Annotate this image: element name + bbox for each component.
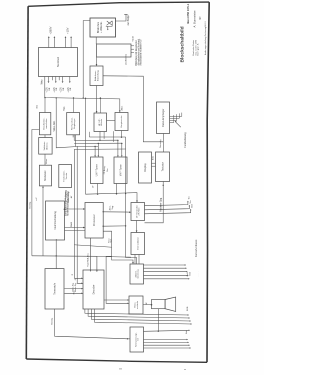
- svg-text:a.u.: a.u.: [37, 104, 39, 108]
- prozessor bottom wires to video endstufe: [106, 256, 129, 303]
- power supply box Netzteil: [39, 48, 78, 77]
- box ZF-Verstaerker: [131, 203, 145, 221]
- svg-text:Video-Abtr.: Video-Abtr.: [53, 120, 56, 131]
- svg-text:Weiche: Weiche: [101, 118, 103, 126]
- svg-text:A. Burmeister: A. Burmeister: [192, 10, 196, 27]
- demodulator to ablenk verticals: [134, 255, 136, 265]
- terminal bar: [124, 14, 127, 16]
- deflection stub 3: [131, 52, 134, 54]
- wire bus drop to VHF tuner: [117, 140, 119, 157]
- netzteil bottom lead 1: [48, 77, 50, 82]
- wire bus drop to VHF tuner: [121, 144, 123, 158]
- box Tastatur: [156, 152, 170, 182]
- svg-text:FBAS: FBAS: [70, 221, 73, 227]
- svg-text:Tastatur: Tastatur: [160, 162, 164, 171]
- svg-text:Display: Display: [143, 163, 147, 172]
- wire from below into modulator: [42, 186, 44, 256]
- svg-text:Blockschaltbild: Blockschaltbild: [179, 26, 185, 62]
- svg-text:Best 856 105-1: Best 856 105-1: [186, 3, 190, 23]
- trennstufe bottom wire to netzspannungsteil: [55, 309, 130, 339]
- svg-text:Spg.: Spg.: [112, 205, 114, 210]
- weiche bottom to bus: [99, 132, 101, 141]
- box Ablenksteuerung: [130, 264, 144, 284]
- bus left verticals: [75, 135, 77, 147]
- deflection output line 5: [144, 278, 190, 280]
- netzteil bottom lead 4: [58, 77, 60, 81]
- box Modulator: [39, 165, 51, 186]
- svg-text:+ Ablenk.: + Ablenk.: [99, 21, 103, 33]
- weiche to hauptsender connector: [107, 120, 116, 122]
- remote hook wire 4: [170, 115, 174, 123]
- svg-text:Netz: Netz: [40, 79, 43, 85]
- prozessor to decoder wire: [89, 238, 91, 272]
- svg-text:UHF-Tuner: UHF-Tuner: [96, 164, 99, 176]
- svg-text:Abstimmspannung-Ausg.: Abstimmspannung-Ausg.: [67, 191, 70, 216]
- svg-text:Netzteil: Netzteil: [56, 57, 60, 67]
- netzteil bottom lead 5: [62, 77, 64, 82]
- klemm bottom to trennstufe: [55, 239, 57, 269]
- netzteil top lead 2: [53, 37, 55, 47]
- box Demodulator: [131, 233, 145, 255]
- x125 down to ablenk: [126, 226, 137, 264]
- svg-text:Abst.: Abst.: [121, 105, 124, 110]
- decoder output line 3: [91, 309, 190, 321]
- long horizontal y256 left: [32, 255, 97, 257]
- IR beam arrow into Daten-Empfaenger: [175, 122, 181, 128]
- netzteil top lead 3: [65, 37, 67, 47]
- ZF output line 2: [145, 205, 190, 209]
- box Decoder: [83, 270, 104, 309]
- prozessor outputs right: [103, 211, 131, 213]
- wire down to bus join: [56, 98, 75, 148]
- decoder output line 2: [88, 309, 189, 318]
- svg-text:BCD: BCD: [152, 155, 154, 160]
- long horizontal y256 right: [97, 255, 131, 258]
- box FD-Synchron-Empfaenger: [67, 113, 80, 135]
- netzspannungsteil right outputs: [144, 330, 190, 331]
- box Siebkreis: [39, 138, 52, 155]
- svg-text:Ton: Ton: [189, 196, 191, 199]
- wire tube to terminal: [116, 15, 127, 21]
- deflection output line 3: [144, 271, 188, 273]
- mains wire to Hauptsender: [45, 77, 120, 113]
- picture tube box Bildroehre: [90, 18, 116, 37]
- CRT symbol inside Bildroehre box: [106, 21, 113, 30]
- svg-text:Demodulator: Demodulator: [137, 237, 140, 250]
- svg-text:endstufe: endstufe: [136, 300, 139, 309]
- svg-text:Ton: Ton: [190, 200, 192, 203]
- mains section output line 3: [144, 344, 190, 346]
- sheet right border: [207, 2, 209, 362]
- deflection stub 2: [131, 48, 134, 50]
- hauptsender bottom to bus: [121, 131, 123, 138]
- tastatur bottom wire to ZF: [145, 182, 164, 223]
- svg-text:ZF-Filter: ZF-Filter: [138, 207, 141, 215]
- svg-text:zur Bildpl.: zur Bildpl.: [127, 14, 130, 25]
- loudspeaker symbol: [152, 297, 176, 312]
- wire band to sieb: [44, 135, 46, 138]
- speaker wire down: [157, 309, 159, 332]
- netzteil bottom lead 6: [69, 77, 71, 82]
- svg-text:Klemmschaltung: Klemmschaltung: [54, 211, 57, 230]
- remote hook wire 3: [170, 114, 177, 120]
- sheet left border: [26, 6, 28, 359]
- box Klemmschaltung: [46, 201, 65, 240]
- remote hook wire 1: [170, 113, 182, 117]
- box Daten-Empfaenger: [157, 102, 170, 134]
- long vertical x125: [125, 137, 127, 226]
- svg-text:+280V: +280V: [48, 26, 52, 34]
- netzteil top lead 1: [48, 37, 50, 47]
- ZF output line 3: [145, 209, 191, 213]
- tube adjust box: [90, 66, 103, 86]
- svg-text:Netzltg.: Netzltg.: [50, 317, 53, 325]
- lower bus into ZF box: [86, 193, 138, 203]
- svg-text:Netz: Netz: [73, 290, 76, 294]
- ZF output line 1: [145, 201, 188, 205]
- svg-text:umschalter: umschalter: [45, 118, 48, 128]
- svg-text:Fernbedienung: Fernbedienung: [185, 132, 187, 148]
- svg-text:Trennstufe: Trennstufe: [53, 282, 56, 294]
- svg-text:Video: Video: [46, 158, 48, 164]
- wire display tastatur: [152, 162, 156, 164]
- remote hook wire 2: [170, 113, 180, 118]
- far left long wire: [32, 129, 40, 255]
- svg-text:Bild: Bild: [190, 272, 192, 275]
- svg-text:SCL/SDA-Bus: SCL/SDA-Bus: [87, 253, 90, 266]
- box Trennstufe: [45, 269, 64, 309]
- wire bus drop to UHF tuner: [94, 146, 96, 157]
- svg-text:Abtrenn.: Abtrenn.: [45, 141, 48, 149]
- svg-text:Fernseh-Chassis: Fernseh-Chassis: [195, 239, 198, 257]
- box Display: [139, 152, 152, 183]
- svg-text:(2x Ablenk): (2x Ablenk): [124, 54, 127, 65]
- svg-text:Norm gepr. K.: Norm gepr. K.: [198, 43, 200, 56]
- wire tube to deflection: [95, 37, 97, 44]
- drop into decoder top: [96, 256, 98, 272]
- wire display tastatur 2: [152, 165, 156, 167]
- svg-text:ZF-Ausg.: ZF-Ausg.: [103, 165, 106, 174]
- wire sieb to modulator: [44, 154, 46, 165]
- wire bus drop to UHF tuner: [97, 144, 99, 158]
- svg-text:Hauptsender: Hauptsender: [120, 115, 123, 127]
- svg-text:+15V: +15V: [65, 27, 69, 34]
- wire down to Bandbreiten box: [44, 98, 46, 113]
- svg-text:RGB: RGB: [187, 306, 189, 311]
- wire E to bus: [72, 135, 74, 138]
- svg-text:Einstellung: Einstellung: [97, 70, 100, 81]
- box Netzspannungsteil: [130, 327, 144, 352]
- horizontal bus lines tuner area: [89, 136, 125, 138]
- klemm to prozessor connectors: [65, 208, 86, 210]
- sheet top border: [28, 2, 209, 6]
- box HF/ZF-Weiche: [94, 113, 107, 132]
- wire adjust to weiche: [96, 86, 98, 114]
- deflection unit box: [97, 44, 132, 57]
- svg-text:Decoder: Decoder: [91, 284, 95, 294]
- horizontal connector y244.8: [74, 245, 111, 247]
- deflection output line 1: [144, 264, 186, 266]
- netzteil bottom lead 2: [51, 77, 53, 81]
- box Prozessor: [85, 203, 103, 239]
- svg-text:Osz.: Osz.: [107, 167, 109, 172]
- netzteil top lead 4: [70, 37, 72, 47]
- trennstufe to decoder wires: [65, 288, 84, 290]
- netzteil bottom lead 3: [55, 77, 57, 82]
- sheet bottom border: [26, 359, 207, 362]
- svg-text:a.V.: a.V.: [36, 197, 38, 201]
- decoder output line 4: [95, 309, 192, 324]
- svg-text:Vert.: Vert.: [110, 238, 113, 243]
- box UHF-Tuner: [91, 157, 104, 184]
- svg-text:Netzltg.: Netzltg.: [29, 201, 32, 208]
- box Bandbreitenumschalter: [39, 113, 50, 135]
- svg-text:Steuerltg.: Steuerltg.: [159, 139, 162, 148]
- box VHF-Tuner: [114, 157, 127, 184]
- specks below border: [119, 368, 122, 371]
- wire videoendstufe to speaker: [143, 304, 152, 306]
- wire tube left down to bus: [83, 21, 90, 99]
- wire daten to tastatur: [162, 134, 164, 153]
- tuner bottoms to lower bus: [97, 184, 99, 195]
- svg-text:VHF-Tuner: VHF-Tuner: [119, 164, 122, 176]
- svg-text:Daten-Empfanger: Daten-Empfanger: [162, 108, 165, 126]
- wire deflection to adjust: [96, 57, 98, 66]
- deflection output line 2: [144, 267, 187, 269]
- wire bus to weiche 2: [99, 98, 101, 113]
- box Hauptsender: [115, 113, 128, 131]
- svg-text:Anschlussen montiert m.V.: Anschlussen montiert m.V.: [140, 39, 143, 66]
- zf to demodulator: [136, 221, 138, 233]
- mains section output line 4: [144, 347, 191, 349]
- svg-text:Prozessor: Prozessor: [92, 214, 96, 226]
- svg-text:Empfanger: Empfanger: [73, 118, 76, 128]
- svg-text:Sender: Sender: [65, 172, 68, 179]
- svg-text:Modulator: Modulator: [44, 170, 47, 180]
- deflection output line 4: [144, 274, 189, 276]
- deflection stub 1: [131, 45, 134, 47]
- wire bus to E top: [73, 98, 75, 113]
- box Videoendstufe: [129, 296, 143, 314]
- prozessor to ablenk wire: [103, 231, 133, 264]
- mains section output line 2: [144, 341, 189, 343]
- svg-text:steuerung: steuerung: [137, 269, 140, 279]
- svg-text:Strahl: Strahl: [131, 35, 134, 41]
- long wire x85 down: [85, 98, 87, 194]
- svg-text:Bild: Bild: [191, 204, 193, 207]
- mains section output line 1: [144, 339, 188, 341]
- svg-text:Netz: Netz: [185, 330, 188, 334]
- svg-text:Anderungsmitteilung Zeichnung: Anderungsmitteilung Zeichnung Bl.1/1: [204, 20, 207, 55]
- box Fernbedien-Sender: [59, 165, 72, 188]
- svg-text:. . . . .: . . . . .: [198, 271, 200, 277]
- wire adjust to keyboard net: [103, 76, 163, 142]
- decoder output line 1: [85, 309, 189, 315]
